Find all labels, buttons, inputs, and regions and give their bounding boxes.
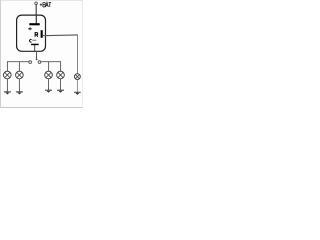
label C (30, 39, 32, 42)
label + (positive) (28, 27, 32, 30)
wire resistor to output (43, 34, 78, 37)
resistor R (41, 30, 43, 38)
wire capacitor stub (34, 45, 36, 51)
wire right branch (41, 62, 61, 72)
indicator lamp L5 (75, 74, 81, 80)
wire lamp4 to ground (60, 79, 62, 90)
capacitor C top plate (32, 39, 36, 41)
terminal +BAT (35, 2, 38, 5)
flasher unit box (17, 15, 46, 51)
label R (35, 33, 38, 37)
wire lamp3 to ground (48, 79, 50, 90)
lamp L3 (45, 71, 53, 79)
wire lamp1 to ground (6, 79, 8, 92)
switch pivot dot (36, 59, 38, 61)
page edge right (82, 0, 84, 108)
wire lamp5 to ground (76, 80, 78, 93)
wire lamp2 to ground (18, 79, 20, 92)
wire left branch (7, 62, 28, 72)
label +BAT (40, 2, 51, 7)
lamp L2 (16, 71, 24, 79)
switch contact right (38, 61, 41, 64)
capacitor C bottom plate (31, 44, 39, 46)
ground G4 (57, 90, 64, 93)
page edge top (0, 0, 83, 1)
lamp L1 (4, 71, 12, 79)
page edge bottom (0, 107, 83, 109)
wire switch feed (36, 51, 38, 59)
lamp L4 (57, 71, 65, 79)
relay armature bar (29, 23, 39, 25)
ground G3 (45, 90, 52, 93)
wire indicator column (77, 35, 79, 74)
ground G1 (4, 92, 11, 95)
background (0, 0, 83, 108)
switch contact left (29, 61, 32, 64)
wire battery lead (35, 5, 37, 16)
wire lamp3 drop (48, 62, 50, 72)
page edge left (0, 0, 1, 108)
ground G5 (74, 92, 81, 95)
ground G2 (16, 92, 23, 95)
wire lead into box (35, 15, 37, 23)
wire lamp2 drop (18, 62, 20, 72)
